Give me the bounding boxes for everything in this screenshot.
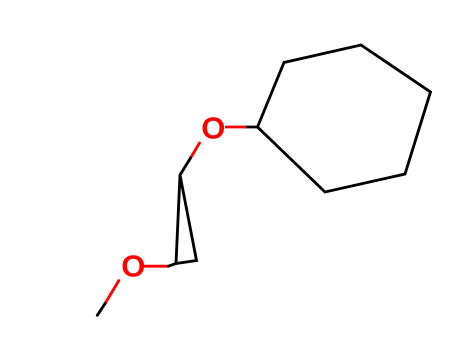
bond O1 to C1 (black part) (180, 158, 191, 175)
svg-text:O: O (121, 249, 145, 284)
svg-text:O: O (201, 111, 225, 146)
bond O1 to ring (red part) (226, 126, 245, 129)
cyclopropane (176, 175, 197, 264)
bond O2 to CH3 (black part) (97, 304, 105, 316)
bond O2 to C3 (black part) (168, 264, 176, 267)
bond O2 to CH3 (red part) (105, 281, 119, 304)
cyclohexane ring (258, 45, 431, 192)
bond O1 to C1 (red part) (191, 143, 200, 158)
bond O1 to ring (black part) (245, 126, 258, 129)
bond O2 to C3 (red part) (145, 265, 169, 268)
